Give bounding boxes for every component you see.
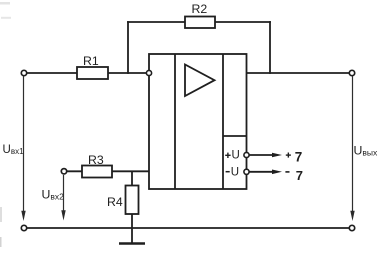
svg-text:R2: R2: [192, 2, 208, 16]
label +7 supply: [286, 150, 303, 165]
measurement arrow Uvx2: [42, 175, 66, 221]
wire: bottom common rail: [24, 227, 352, 229]
pin +U: [225, 150, 282, 162]
svg-text:7: 7: [296, 168, 303, 183]
svg-text:R1: R1: [83, 54, 99, 68]
resistor R2: [185, 2, 215, 28]
wire: R4 to common rail: [131, 214, 133, 228]
ground: [119, 228, 145, 244]
wire: feedback top left segment: [127, 21, 186, 23]
scan smudge top-left: [0, 2, 11, 247]
resistor R3: [82, 153, 112, 178]
wire: feedback drop to output: [269, 21, 271, 74]
wire: feedback riser at node A: [127, 21, 129, 74]
resistor R4: [107, 186, 139, 215]
terminal: output: [349, 70, 354, 75]
svg-text:U: U: [231, 167, 239, 179]
label -7 supply: [285, 168, 303, 183]
op-amp amplifier triangle: [185, 65, 215, 97]
resistor R1: [77, 54, 108, 79]
op-amp U1 body: [149, 54, 247, 189]
measurement arrow Uvyh: [350, 76, 378, 221]
wire: feedback top right segment: [215, 21, 271, 23]
op-amp input pin circle: [146, 70, 151, 75]
terminal: common left: [21, 225, 26, 230]
wire: R3 to op-amp non-inverting input: [112, 170, 149, 172]
terminal: input 2: [61, 169, 66, 174]
svg-text:U: U: [232, 150, 240, 162]
wire: input1 terminal to R1: [24, 72, 78, 74]
wire: R1 to op-amp inverting input: [108, 72, 147, 74]
wire: input2 terminal to R3: [66, 170, 83, 172]
svg-text:7: 7: [295, 150, 303, 165]
measurement arrow Uvx1: [3, 76, 26, 221]
terminal: input 1: [21, 70, 26, 75]
svg-text:R4: R4: [107, 195, 123, 209]
wire: node B down to R4: [131, 171, 133, 186]
pin -U: [226, 167, 282, 179]
wire: op-amp output to output terminal: [247, 72, 350, 74]
svg-text:R3: R3: [88, 153, 104, 167]
terminal: common right: [349, 225, 354, 230]
